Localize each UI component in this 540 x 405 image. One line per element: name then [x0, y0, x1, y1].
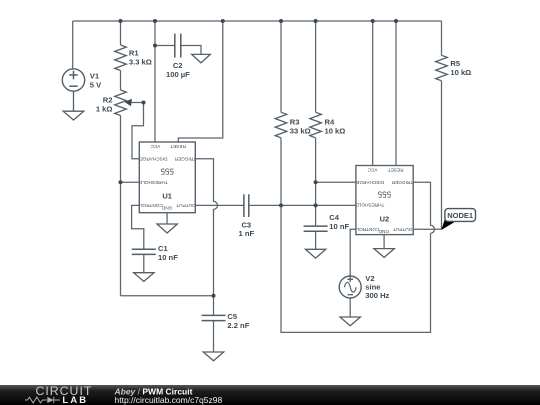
- wire R5 column top: [441, 21, 443, 55]
- wire C4 bottom lead to ground: [315, 231, 317, 249]
- wire U1 RESET jog up to rail: [178, 21, 223, 142]
- wire bottom-left rail to C5 junction: [121, 295, 214, 297]
- svg-text:NODE1: NODE1: [447, 211, 473, 220]
- svg-text:10 nF: 10 nF: [329, 222, 349, 231]
- svg-text:C5: C5: [227, 312, 237, 321]
- wire R5 bottom to output node: [441, 81, 443, 229]
- svg-text:R3: R3: [290, 117, 300, 126]
- wire C1 bottom lead to ground: [143, 254, 145, 272]
- svg-text:http://circuitlab.com/c7q5z98: http://circuitlab.com/c7q5z98: [115, 395, 223, 405]
- junction U2 discharge node: [314, 180, 318, 184]
- junction C4/threshold line: [314, 203, 318, 207]
- op chip U2 (555 timer): [355, 166, 413, 235]
- junction U2 RESET/top rail: [394, 19, 398, 23]
- svg-text:R4: R4: [325, 117, 335, 126]
- svg-text:OUTPUT: OUTPUT: [176, 203, 195, 208]
- svg-text:10 nF: 10 nF: [158, 253, 178, 262]
- svg-text:LAB: LAB: [62, 394, 88, 405]
- wire U2 CONTROL to V2: [350, 229, 356, 276]
- wire R3 node down and bottom-right rail: [281, 205, 431, 332]
- svg-text:33 kΩ: 33 kΩ: [290, 126, 311, 135]
- wire C5 bottom lead to ground: [213, 321, 215, 352]
- wire C2 left lead: [155, 45, 175, 47]
- svg-text:VCC: VCC: [150, 144, 161, 149]
- svg-text:TRIGGER: TRIGGER: [174, 156, 196, 161]
- svg-text:C4: C4: [329, 213, 339, 222]
- svg-text:TRIGGER: TRIGGER: [391, 180, 413, 185]
- junction U1 threshold node: [119, 180, 123, 184]
- svg-text:GND: GND: [378, 229, 389, 234]
- resistor R5 10k: [436, 55, 448, 80]
- svg-text:10 kΩ: 10 kΩ: [325, 126, 346, 135]
- svg-text:555: 555: [160, 167, 174, 176]
- wire discharge node to threshold node: [315, 182, 317, 205]
- junction R1/top rail: [119, 19, 123, 23]
- wire U1 GND stub: [166, 213, 168, 224]
- wire R4 bottom to discharge node: [315, 138, 317, 183]
- svg-text:100 µF: 100 µF: [166, 70, 190, 79]
- wire U2 RESET column: [395, 21, 397, 166]
- ground below U1 GND: [157, 224, 177, 233]
- svg-text:RESET: RESET: [388, 167, 404, 172]
- R2 wiper arrow: [125, 99, 132, 107]
- wire U1 OUTPUT to C3: [195, 204, 244, 206]
- resistor R3 33k: [275, 112, 287, 138]
- svg-text:R1: R1: [129, 49, 139, 58]
- wire R1 top column: [120, 21, 122, 45]
- ground below V2: [340, 317, 360, 326]
- ground below C5: [203, 352, 223, 361]
- junction R3/threshold line: [279, 203, 283, 207]
- wire U1 TRIGGER down with hop over output: [195, 159, 218, 296]
- wire V1 top column: [72, 21, 74, 69]
- junction R4/top rail: [314, 19, 318, 23]
- svg-text:R5: R5: [450, 59, 460, 68]
- ground below C2: [192, 54, 211, 63]
- resistor R1 3.3 k: [115, 45, 127, 70]
- wire V2 bottom to ground: [349, 298, 351, 317]
- node NODE1 flag: [441, 209, 475, 230]
- svg-text:GND: GND: [161, 205, 172, 210]
- svg-text:DISCHARGE: DISCHARGE: [140, 156, 168, 161]
- svg-text:THRESHOLD: THRESHOLD: [138, 180, 168, 185]
- svg-text:2.2 nF: 2.2 nF: [227, 321, 249, 330]
- wire R4 column top: [315, 21, 317, 112]
- junction R2 wiper: [142, 101, 146, 105]
- wire C5 top lead: [213, 296, 215, 316]
- wire U2 GND stub: [383, 235, 385, 249]
- wire C3 to U2 THRESHOLD: [249, 204, 356, 206]
- svg-text:V1: V1: [90, 72, 100, 81]
- wire threshold node down to C4: [315, 205, 317, 226]
- svg-text:1 kΩ: 1 kΩ: [96, 104, 113, 113]
- svg-text:C3: C3: [241, 220, 251, 229]
- wire U2 VCC column: [372, 21, 374, 166]
- junction C2 column/top rail: [153, 19, 157, 23]
- junction C5 node: [212, 294, 216, 298]
- op chip U1 (555 timer): [138, 142, 196, 213]
- svg-text:555: 555: [377, 190, 391, 199]
- capacitor C1 10nF: [132, 249, 156, 254]
- ground below V1: [63, 91, 84, 120]
- svg-text:5 V: 5 V: [90, 81, 102, 90]
- capacitor C3 1nF: [244, 194, 249, 217]
- junction C2 tap: [153, 44, 157, 48]
- wire U1 CONTROL to C1: [132, 205, 144, 249]
- svg-text:U1: U1: [162, 192, 172, 201]
- wire U2 OUTPUT to node: [413, 228, 441, 230]
- junction U1 reset column/top rail: [221, 19, 225, 23]
- svg-text:RESET: RESET: [170, 144, 186, 149]
- svg-text:THRESHOLD: THRESHOLD: [355, 203, 385, 208]
- svg-text:R2: R2: [103, 95, 113, 104]
- wire R3 bottom to threshold line: [280, 138, 282, 206]
- capacitor C5 2.2nF: [202, 315, 226, 320]
- svg-text:DISCHARGE: DISCHARGE: [356, 180, 384, 185]
- svg-text:OUTPUT: OUTPUT: [393, 227, 412, 232]
- ground below U2 GND: [374, 249, 394, 258]
- voltage source V2 sine: [339, 276, 361, 298]
- svg-text:10 kΩ: 10 kΩ: [450, 68, 471, 77]
- wire C2/VCC column: [154, 21, 156, 142]
- svg-text:U2: U2: [380, 214, 390, 223]
- svg-text:CONTROL: CONTROL: [356, 227, 379, 232]
- junction R3/top rail: [279, 19, 283, 23]
- ground below C4: [305, 249, 325, 258]
- wire R2 bottom down to bottom-left rail: [120, 116, 122, 296]
- potentiometer R2 1 k: [115, 90, 127, 116]
- voltage source V1: [62, 69, 84, 91]
- svg-text:C2: C2: [173, 61, 183, 70]
- svg-text:VCC: VCC: [367, 167, 378, 172]
- svg-text:300 Hz: 300 Hz: [365, 291, 389, 300]
- CircuitLab logo: [25, 384, 92, 405]
- junction U2 VCC/top rail: [371, 19, 375, 23]
- wire R2 wiper to U1 DISCHARGE: [127, 103, 144, 159]
- ground below C1: [134, 273, 154, 282]
- footer bar: [0, 385, 540, 405]
- wire U2 DISCHARGE stub: [316, 181, 356, 183]
- svg-text:C1: C1: [158, 244, 168, 253]
- wire U1 THRESHOLD stub: [121, 181, 140, 183]
- wire top rail: [73, 20, 442, 22]
- svg-text:CONTROL: CONTROL: [139, 203, 162, 208]
- wire R1 to R2: [120, 71, 122, 91]
- wire C2 right lead to ground: [181, 46, 201, 55]
- capacitor C2 100uF: [175, 34, 181, 58]
- svg-text:1 nF: 1 nF: [238, 229, 254, 238]
- wire U2 TRIGGER right and down with hop: [413, 182, 434, 233]
- resistor R4 10k: [310, 112, 322, 138]
- svg-text:3.3 kΩ: 3.3 kΩ: [129, 58, 152, 67]
- capacitor C4 10nF: [304, 226, 328, 231]
- wire R3 column top: [280, 21, 282, 112]
